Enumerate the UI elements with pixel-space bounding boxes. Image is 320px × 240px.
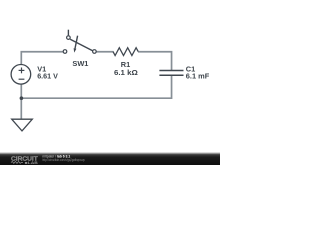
capacitor C1	[159, 71, 183, 76]
node junction	[20, 96, 24, 100]
wire capacitor bottom to bottom rail	[21, 75, 171, 98]
wire switch to resistor	[96, 51, 113, 53]
svg-text:6.1 mF: 6.1 mF	[186, 72, 210, 81]
svg-text:6.61 V: 6.61 V	[37, 72, 58, 81]
ground	[12, 119, 33, 131]
svg-text:■LAB: ■LAB	[25, 160, 38, 165]
resistor R1	[113, 48, 138, 56]
svg-text:6.1 kΩ: 6.1 kΩ	[114, 68, 138, 77]
svg-text:SW1: SW1	[72, 59, 88, 68]
wire V1 bottom to ground	[20, 84, 22, 119]
voltage source V1	[11, 65, 31, 85]
CircuitLab logo	[11, 157, 38, 165]
svg-text:http://circuitlab.com/c/gq2gaf: http://circuitlab.com/c/gq2gafbqrcuqv	[42, 158, 85, 162]
components (dark strokes)	[11, 30, 183, 131]
wires (light soft strokes)	[21, 52, 171, 119]
wire top-left L	[21, 52, 63, 65]
wire resistor to top-right corner and down	[138, 52, 172, 70]
switch SW1	[63, 30, 96, 54]
